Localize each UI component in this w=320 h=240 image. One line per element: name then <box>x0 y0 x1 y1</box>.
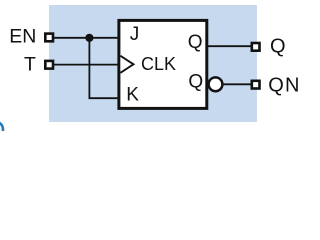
svg-text:T: T <box>24 54 36 76</box>
svg-text:J: J <box>130 24 140 45</box>
svg-text:Q: Q <box>188 72 203 93</box>
svg-text:Q: Q <box>270 35 286 57</box>
svg-text:EN: EN <box>9 26 36 48</box>
svg-text:CLK: CLK <box>141 54 176 74</box>
svg-text:QN: QN <box>268 75 300 97</box>
svg-text:K: K <box>126 85 139 106</box>
svg-text:Q: Q <box>188 32 203 53</box>
